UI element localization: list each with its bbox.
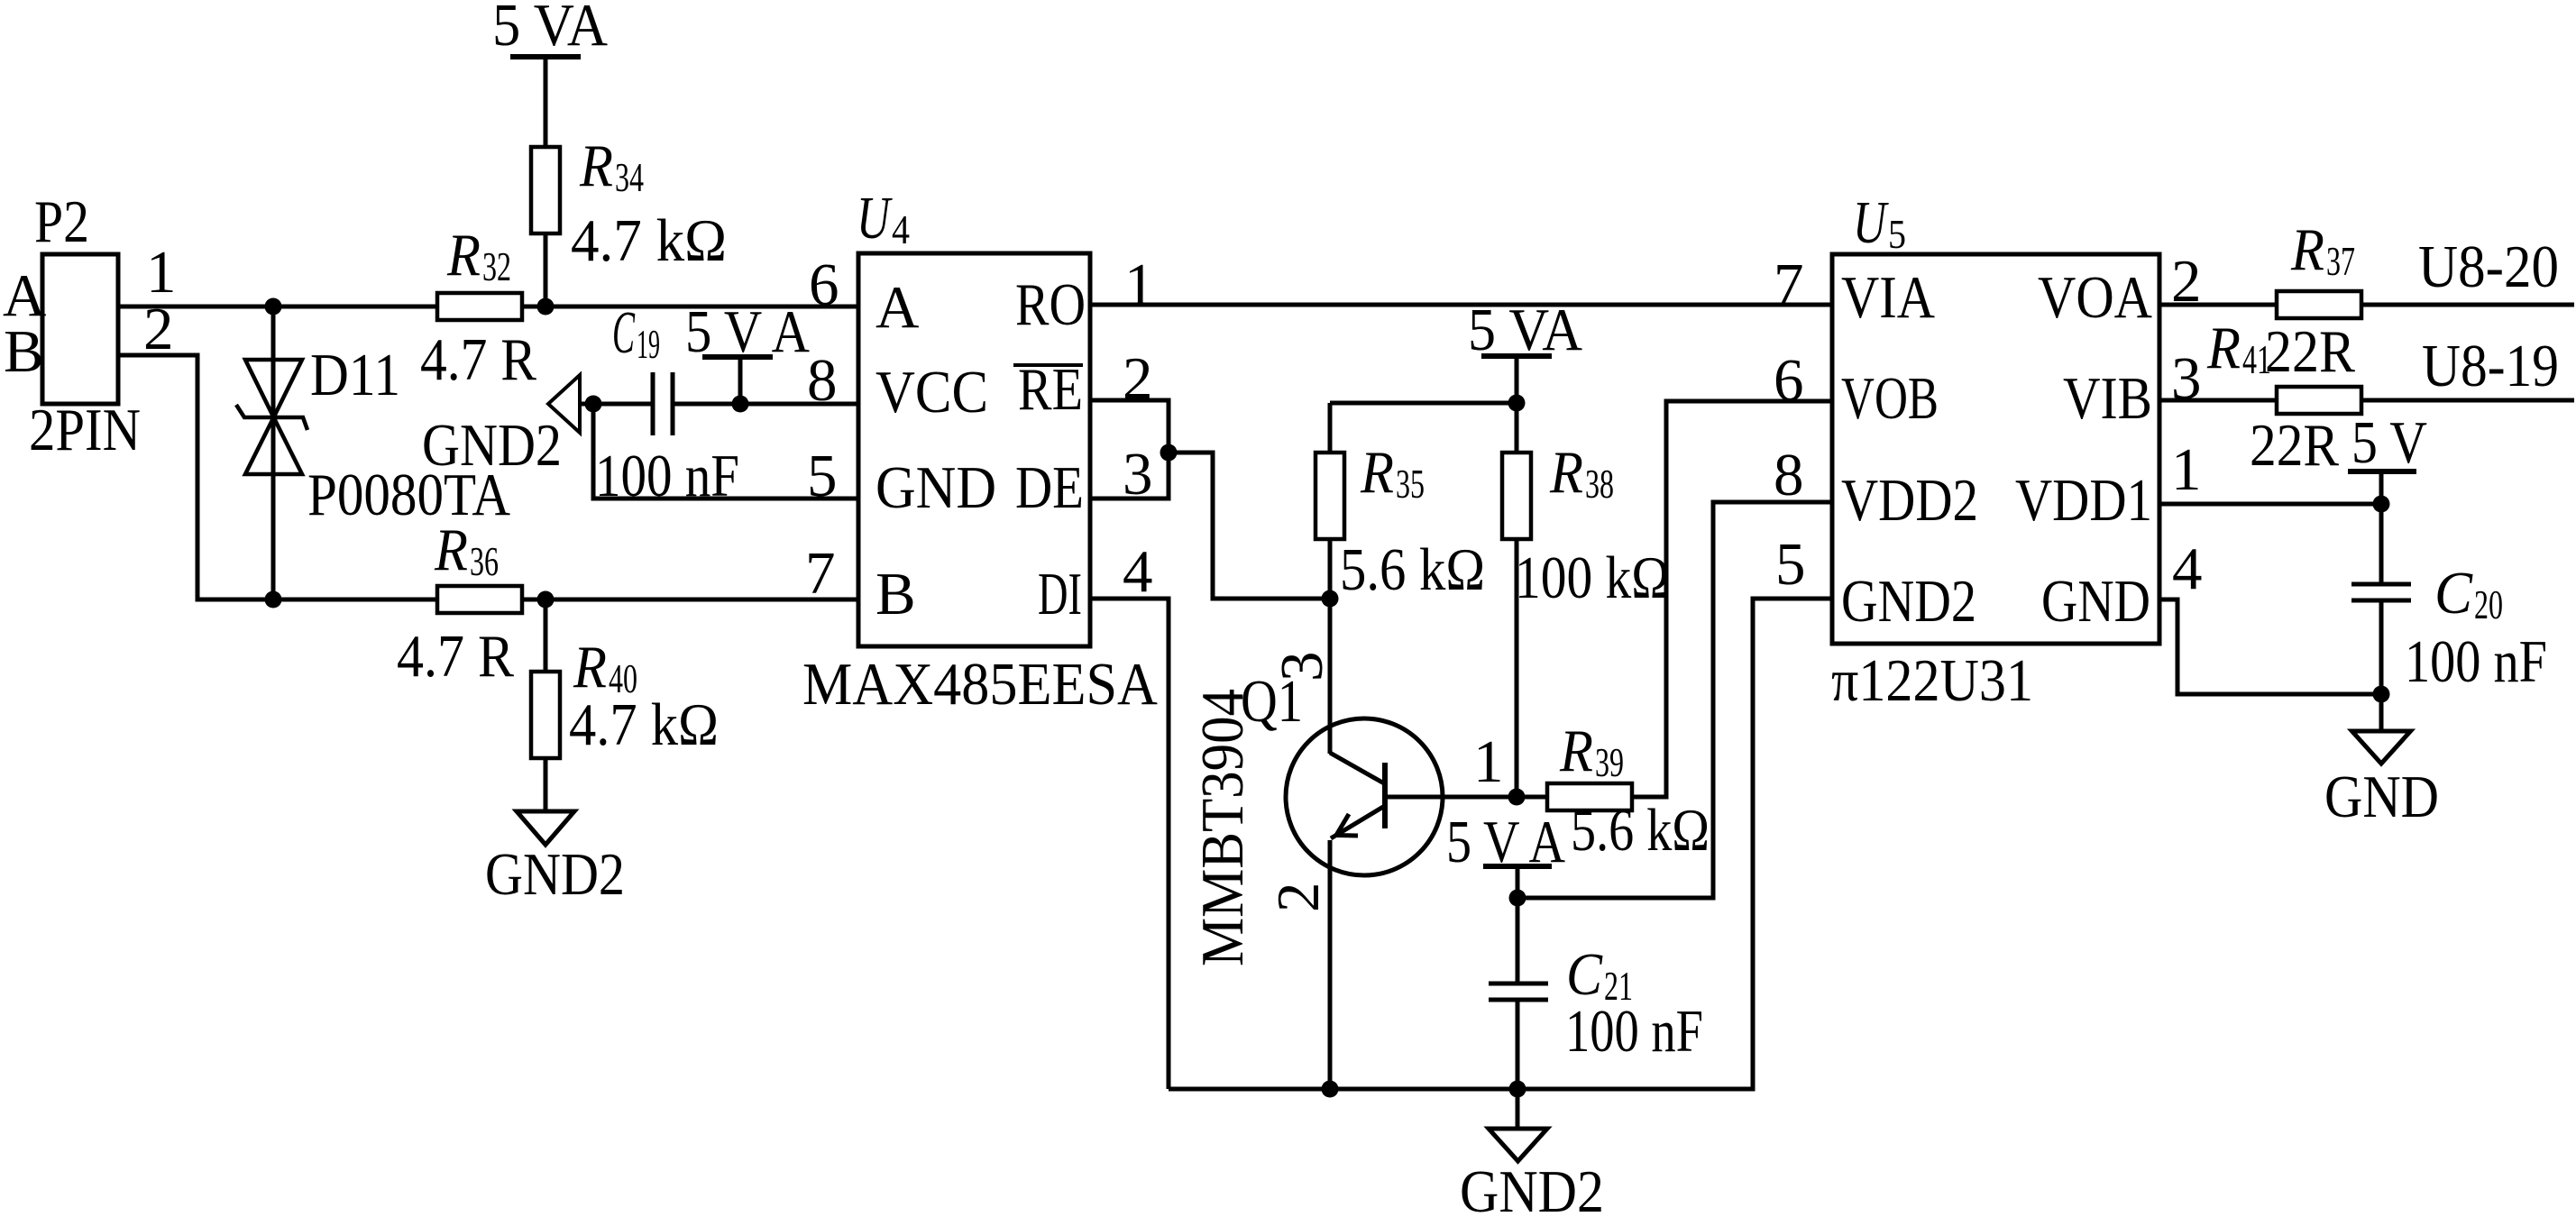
svg-text:4: 4 bbox=[892, 206, 910, 252]
svg-text:RO: RO bbox=[1015, 271, 1086, 338]
wire D11 vertical bbox=[271, 306, 276, 599]
svg-text:5 VA: 5 VA bbox=[492, 0, 608, 59]
ground GND bbox=[2324, 731, 2439, 830]
svg-text:37: 37 bbox=[2326, 238, 2355, 284]
wire R36 junction down through R40 to GND2 bbox=[544, 599, 548, 811]
wire GND2 rail bbox=[1169, 599, 1832, 1089]
resistor R35 5.6 kOhm bbox=[1316, 439, 1485, 603]
svg-text:R: R bbox=[2206, 315, 2241, 381]
svg-text:VOB: VOB bbox=[1841, 365, 1939, 432]
svg-text:R: R bbox=[2290, 216, 2324, 283]
wire across to R35 bbox=[1330, 401, 1517, 406]
junction dot bbox=[265, 298, 282, 316]
svg-text:R: R bbox=[1549, 439, 1583, 506]
svg-text:39: 39 bbox=[1595, 739, 1624, 785]
junction dot bbox=[537, 298, 555, 316]
wire B row (P2.2 down and across to U4.B) bbox=[118, 355, 858, 599]
junction dot bbox=[732, 396, 749, 413]
svg-text:5: 5 bbox=[807, 443, 838, 509]
resistor R40 4.7 kOhm bbox=[531, 634, 719, 758]
junction dot bbox=[1508, 789, 1526, 806]
svg-text:P2: P2 bbox=[34, 188, 89, 255]
power 5 V A (C21) bbox=[1446, 809, 1565, 875]
svg-text:U: U bbox=[857, 185, 894, 252]
ground GND2 arrow (left pointing) bbox=[422, 375, 580, 479]
wire A row (P2.1 - R32 - U4.A) bbox=[118, 305, 858, 309]
svg-text:100 nF: 100 nF bbox=[1565, 998, 1703, 1065]
svg-text:B: B bbox=[875, 561, 916, 627]
wire 5VA to R38 down to Q1 base bbox=[1515, 356, 1519, 797]
junction dot bbox=[1509, 890, 1526, 907]
svg-text:5.6 kΩ: 5.6 kΩ bbox=[1340, 536, 1485, 603]
svg-text:1: 1 bbox=[1124, 252, 1155, 318]
svg-text:41: 41 bbox=[2242, 336, 2271, 382]
svg-text:GND: GND bbox=[2324, 764, 2439, 830]
resistor R39 5.6 kOhm bbox=[1547, 718, 1710, 864]
wire RE-DE tie bbox=[1090, 400, 1169, 499]
svg-text:7: 7 bbox=[805, 540, 836, 607]
wire Q1 emitter down bbox=[1328, 840, 1333, 1089]
svg-text:3: 3 bbox=[1269, 652, 1335, 682]
wire VIB to U8-19 bbox=[2159, 398, 2574, 403]
svg-text:22R: 22R bbox=[2265, 318, 2355, 385]
power 5 VA (middle) bbox=[1468, 297, 1582, 363]
wire VOA to U8-20 bbox=[2159, 303, 2574, 307]
svg-text:22R: 22R bbox=[2250, 412, 2339, 479]
resistor R37 22R bbox=[2265, 216, 2361, 385]
wire rail to GND2 symbol bbox=[1516, 1089, 1520, 1129]
capacitor C19 100 nF bbox=[595, 299, 739, 509]
wire RO to VIA bbox=[1090, 303, 1832, 307]
svg-text:35: 35 bbox=[1396, 461, 1425, 507]
resistor R32 4.7R bbox=[420, 222, 536, 393]
svg-text:100 nF: 100 nF bbox=[595, 443, 739, 509]
ground GND2 (left) bbox=[485, 811, 625, 908]
wire C21 to rail bbox=[1516, 1000, 1520, 1089]
svg-text:5: 5 bbox=[1775, 531, 1806, 598]
svg-text:38: 38 bbox=[1585, 461, 1614, 507]
power 5 V bbox=[2348, 409, 2427, 504]
resistor R41 22R bbox=[2206, 315, 2361, 479]
svg-text:36: 36 bbox=[470, 538, 499, 584]
junction dot bbox=[1508, 395, 1526, 412]
svg-text:4: 4 bbox=[2172, 535, 2203, 602]
resistor R36 4.7R bbox=[397, 517, 522, 690]
svg-text:MAX485EESA: MAX485EESA bbox=[802, 651, 1158, 718]
svg-text:32: 32 bbox=[482, 243, 511, 289]
wire RE/DE branch to Q1 collector bbox=[1169, 453, 1330, 599]
svg-text:C: C bbox=[612, 299, 636, 366]
svg-text:7: 7 bbox=[1774, 252, 1804, 318]
svg-text:R: R bbox=[573, 634, 607, 700]
wire R39 to VOB bbox=[1517, 401, 1832, 797]
svg-text:GND2: GND2 bbox=[1841, 568, 1976, 635]
IC U4 MAX485EESA bbox=[802, 185, 1158, 718]
svg-text:GND2: GND2 bbox=[485, 841, 625, 908]
connector P2 bbox=[29, 188, 141, 463]
svg-text:R: R bbox=[579, 133, 613, 199]
wire 5V junction to C20 bbox=[2379, 504, 2384, 584]
svg-text:100 kΩ: 100 kΩ bbox=[1515, 544, 1670, 611]
svg-text:34: 34 bbox=[615, 154, 644, 200]
junction dot bbox=[2373, 686, 2390, 703]
IC U5 pi122U31 bbox=[1831, 189, 2159, 714]
junction dot bbox=[265, 591, 282, 608]
wire C20 to GND junction bbox=[2379, 600, 2384, 694]
svg-text:U8-20: U8-20 bbox=[2418, 233, 2559, 300]
svg-text:5.6 kΩ: 5.6 kΩ bbox=[1571, 797, 1710, 864]
svg-text:π122U31: π122U31 bbox=[1831, 647, 2033, 714]
svg-text:1: 1 bbox=[1473, 728, 1504, 795]
svg-text:U: U bbox=[1853, 189, 1890, 256]
junction dot bbox=[1322, 1081, 1339, 1098]
wire 5VA down to C21 bbox=[1516, 866, 1520, 984]
svg-text:U8-19: U8-19 bbox=[2422, 333, 2559, 399]
junction dot bbox=[585, 396, 602, 413]
capacitor C21 100 nF bbox=[1489, 941, 1703, 1065]
svg-text:R: R bbox=[434, 517, 468, 583]
svg-text:C: C bbox=[2434, 560, 2473, 627]
svg-text:100 nF: 100 nF bbox=[2405, 628, 2547, 695]
svg-text:VIA: VIA bbox=[1841, 264, 1935, 331]
junction dot bbox=[1322, 590, 1339, 608]
power 5 VA bbox=[492, 0, 608, 59]
diode D11 (TVS P0080TA) bbox=[236, 342, 510, 528]
svg-text:R: R bbox=[446, 222, 481, 288]
wire 5VA to R34 to A row bbox=[544, 57, 548, 306]
svg-text:4: 4 bbox=[1123, 538, 1153, 605]
wire C19 to U4.VCC bbox=[673, 402, 858, 407]
svg-text:20: 20 bbox=[2474, 581, 2503, 627]
capacitor C20 100 nF bbox=[2351, 560, 2547, 695]
svg-text:6: 6 bbox=[809, 252, 839, 318]
wire Q1 collector bbox=[1328, 599, 1333, 754]
svg-text:VIB: VIB bbox=[2063, 365, 2152, 432]
svg-text:A: A bbox=[875, 274, 919, 341]
svg-text:MMBT3904: MMBT3904 bbox=[1189, 689, 1256, 966]
junction dot bbox=[2373, 496, 2390, 513]
junction dot bbox=[1160, 444, 1178, 462]
svg-text:VOA: VOA bbox=[2038, 264, 2152, 331]
transistor Q1 MMBT3904 bbox=[1241, 668, 1443, 875]
wire DI down to GND2 rail bbox=[1090, 599, 1169, 1089]
wire VDD1 to 5V bbox=[2159, 502, 2381, 507]
svg-text:GND2: GND2 bbox=[422, 412, 562, 479]
ground GND2 (middle) bbox=[1460, 1129, 1604, 1225]
svg-text:VDD1: VDD1 bbox=[2015, 467, 2152, 534]
svg-text:GND2: GND2 bbox=[1460, 1158, 1604, 1225]
svg-text:6: 6 bbox=[1774, 347, 1804, 414]
svg-text:4.7 kΩ: 4.7 kΩ bbox=[571, 207, 727, 274]
svg-text:R: R bbox=[1559, 718, 1593, 784]
svg-text:5 VA: 5 VA bbox=[1468, 297, 1582, 363]
wire GND2 arrow to C19 bbox=[580, 402, 653, 407]
svg-text:5: 5 bbox=[1888, 211, 1906, 257]
svg-text:4.7 kΩ: 4.7 kΩ bbox=[569, 691, 719, 758]
wire Q1 base to R39 bbox=[1385, 795, 1548, 800]
wire to GND symbol bbox=[2379, 694, 2384, 731]
wire R35 column bbox=[1328, 403, 1333, 599]
junction dot bbox=[1509, 1081, 1526, 1098]
svg-text:R: R bbox=[1360, 439, 1394, 506]
svg-text:8: 8 bbox=[1774, 442, 1804, 508]
wire down to GND row bbox=[593, 404, 858, 499]
svg-text:1: 1 bbox=[2171, 436, 2202, 503]
wire GND pin 4 bbox=[2159, 599, 2381, 694]
resistor R38 100 kOhm bbox=[1502, 439, 1670, 611]
svg-text:19: 19 bbox=[637, 321, 660, 367]
svg-text:4.7 R: 4.7 R bbox=[397, 623, 514, 690]
wire 5VA junction to VDD2 bbox=[1517, 502, 1832, 898]
svg-text:5 V: 5 V bbox=[2351, 409, 2427, 476]
svg-text:GND: GND bbox=[2041, 568, 2150, 635]
svg-text:GND: GND bbox=[875, 454, 996, 521]
svg-text:VDD2: VDD2 bbox=[1841, 467, 1978, 534]
svg-text:D11: D11 bbox=[310, 342, 400, 408]
resistor R34 4.7 kOhm bbox=[531, 133, 727, 274]
svg-text:DI: DI bbox=[1038, 561, 1082, 627]
svg-text:4.7 R: 4.7 R bbox=[420, 326, 536, 393]
svg-text:B: B bbox=[4, 318, 44, 385]
svg-text:2: 2 bbox=[1265, 883, 1332, 913]
junction dot bbox=[537, 591, 555, 608]
svg-text:DE: DE bbox=[1015, 454, 1084, 521]
svg-text:VCC: VCC bbox=[875, 359, 988, 425]
svg-text:2PIN: 2PIN bbox=[29, 397, 141, 463]
power 5 V A (C19) bbox=[685, 298, 810, 404]
svg-text:8: 8 bbox=[807, 347, 838, 414]
